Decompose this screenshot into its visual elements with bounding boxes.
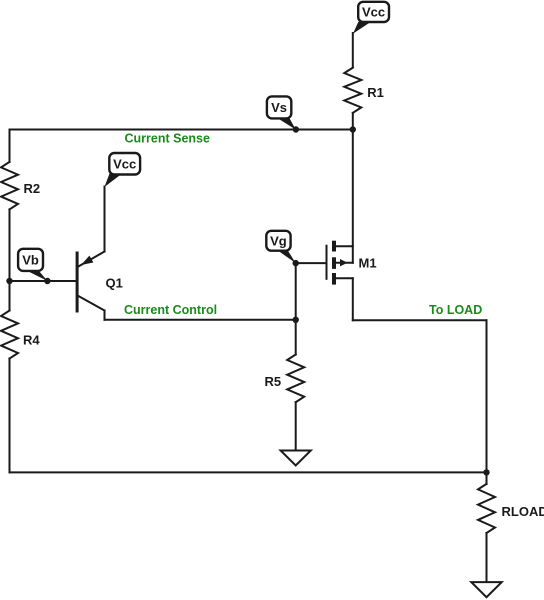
wire bottom rail [10, 471, 487, 473]
wire Vs node down to M1 drain and body [352, 130, 354, 263]
node Vg junction dot [293, 260, 299, 266]
flag Vcc (Q1) [104, 153, 140, 187]
svg-text:R5: R5 [265, 374, 282, 389]
flag Vb [18, 249, 47, 281]
ground (RLOAD) [471, 582, 501, 597]
resistor R5 [287, 355, 304, 403]
transistor Q1 [77, 187, 104, 320]
wire Vg node to gate [296, 262, 327, 264]
wire R5 bottom to ground [295, 402, 297, 450]
wire Vs horizontal (Current Sense net) [10, 129, 353, 131]
wire RLOAD bottom to ground [486, 533, 488, 582]
svg-text:RLOAD: RLOAD [502, 504, 544, 519]
node Vb junction dot [44, 278, 50, 284]
node gate/R5 junction dot [293, 317, 299, 323]
svg-text:R4: R4 [23, 333, 40, 348]
resistor R2 [1, 162, 18, 210]
svg-text:R2: R2 [24, 181, 41, 196]
wire junction to RLOAD [486, 472, 488, 484]
svg-text:Vb: Vb [22, 253, 39, 268]
flag Vcc (top) [353, 2, 389, 34]
ground (R5) [281, 451, 311, 466]
wire left rail top (Vs to R2) [9, 130, 11, 162]
svg-text:Vcc: Vcc [113, 157, 136, 172]
svg-text:Vs: Vs [271, 100, 287, 115]
wire Vg node down to Current Control junction [295, 263, 297, 320]
svg-text:Q1: Q1 [106, 276, 123, 291]
svg-text:R1: R1 [367, 85, 384, 100]
svg-text:Vcc: Vcc [362, 5, 385, 20]
wire R1 bottom to Vs node [352, 113, 354, 130]
node load/RLOAD junction dot [483, 469, 489, 475]
svg-text:Vg: Vg [270, 234, 287, 249]
svg-text:Current Sense: Current Sense [125, 131, 210, 145]
wire Current Control (Q1 collector to Vg node) [105, 319, 296, 321]
resistor RLOAD [478, 484, 495, 533]
svg-text:To LOAD: To LOAD [429, 303, 482, 317]
node R1/M1 junction dot [350, 126, 356, 132]
wire M1 source down [352, 278, 354, 320]
resistor R1 [344, 68, 361, 113]
wire R2 bottom to Vb node [9, 209, 11, 281]
transistor M1 (NMOS) [327, 241, 353, 285]
resistor R4 [1, 311, 18, 359]
flag Vs [267, 96, 296, 129]
wire Vcc stub to R1 top [352, 33, 354, 68]
wire base (Vb node to Q1 base) [10, 280, 76, 282]
svg-text:M1: M1 [359, 255, 377, 270]
svg-text:Current Control: Current Control [124, 303, 217, 317]
wire Vb node to R4 [9, 281, 11, 311]
wire To LOAD [353, 319, 487, 321]
node Vb rail junction dot [6, 278, 12, 284]
node Vs junction dot [293, 126, 299, 132]
wire R4 bottom to ground rail [9, 359, 11, 473]
wire junction to R5 [295, 320, 297, 355]
flag Vg [266, 231, 295, 263]
wire load vertical [486, 320, 488, 472]
